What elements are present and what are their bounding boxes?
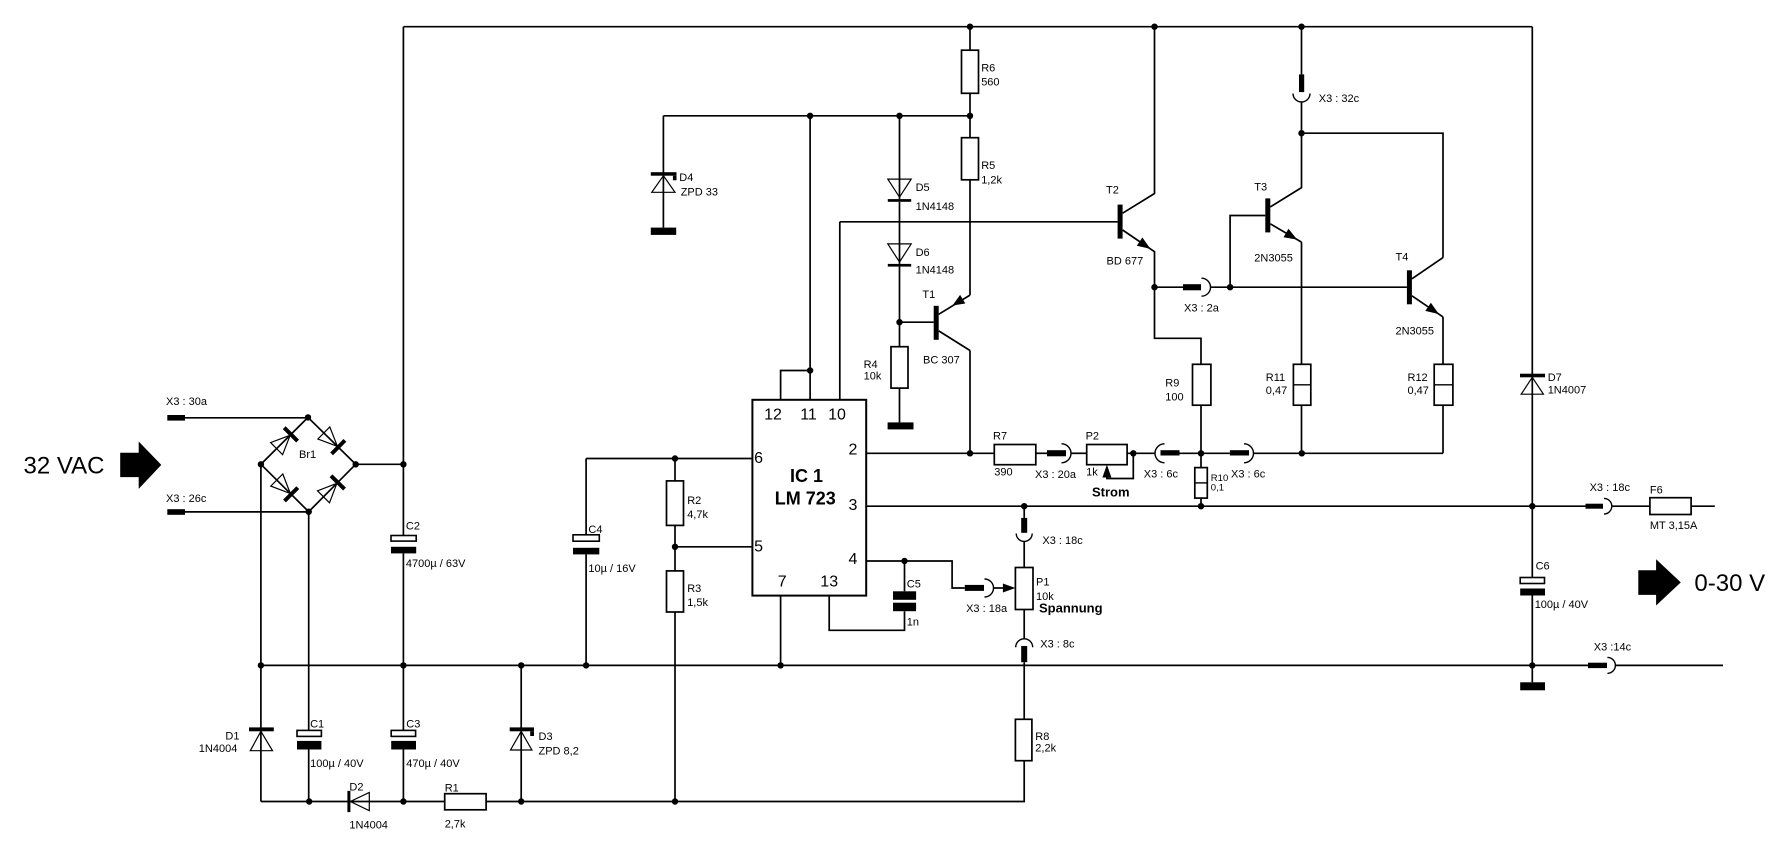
resistor R3: [674, 547, 676, 571]
junction row / C1: [306, 798, 312, 804]
svg-text:T3: T3: [1254, 182, 1267, 194]
svg-text:X3 : 6c: X3 : 6c: [1231, 469, 1266, 481]
svg-text:T4: T4: [1396, 252, 1409, 264]
svg-text:10k: 10k: [864, 370, 882, 382]
resistor R5: [969, 116, 971, 138]
terminal X3:14c: [1588, 663, 1607, 668]
junction row / R3: [672, 798, 678, 804]
wire D3 to bottom row: [520, 750, 522, 802]
output arrow 0-30 V: [1638, 559, 1681, 605]
wire D1 to bottom row: [260, 751, 262, 802]
svg-text:IC 1: IC 1: [790, 466, 823, 486]
svg-text:R8: R8: [1035, 731, 1049, 743]
resistor R8: [1015, 719, 1032, 760]
junction pin3 rail / R10: [1198, 503, 1204, 509]
zener diode D4: [662, 116, 664, 193]
svg-text:R12: R12: [1408, 372, 1428, 384]
svg-text:5: 5: [754, 539, 763, 556]
wire IC pin 13 to C5: [829, 596, 904, 631]
junction pin4 / C5: [901, 558, 907, 564]
junction top rail / T2 collector: [1151, 24, 1157, 30]
wire T3/T4 collector link: [1302, 133, 1444, 257]
potentiometer P2 (Strom): [1086, 431, 1134, 500]
svg-text:1N4148: 1N4148: [916, 201, 955, 213]
diode D1: [249, 727, 274, 731]
junction bus / D1: [258, 662, 264, 668]
svg-text:D5: D5: [916, 182, 930, 194]
terminal X3:20a: [1047, 450, 1066, 456]
wire bridge + output to riser: [356, 463, 404, 465]
ground (under R4): [888, 422, 914, 429]
capacitor C3: [391, 730, 415, 736]
junction bus / D3: [518, 662, 524, 668]
svg-text:X3 : 30a: X3 : 30a: [166, 396, 208, 408]
svg-text:4: 4: [849, 551, 858, 568]
wire C3 to bottom row: [402, 750, 404, 802]
resistor R2: [674, 459, 676, 481]
wire IC pin 6 rail: [586, 458, 752, 460]
potentiometer P1 (Spannung): [1003, 542, 1103, 616]
svg-text:32 VAC: 32 VAC: [24, 453, 105, 480]
wire C2 to 0V bus: [402, 553, 404, 665]
resistor R9: [1193, 364, 1211, 405]
svg-text:3: 3: [849, 497, 858, 514]
svg-text:X3 : 8c: X3 : 8c: [1040, 639, 1075, 651]
svg-text:0-30 V: 0-30 V: [1694, 570, 1765, 597]
diode D7: [1531, 27, 1533, 395]
transistor T4 (2N3055): [1396, 252, 1444, 338]
junction row / C3: [400, 798, 406, 804]
svg-text:10µ / 16V: 10µ / 16V: [588, 563, 636, 575]
svg-text:1N4007: 1N4007: [1548, 385, 1587, 397]
svg-text:MT 3,15A: MT 3,15A: [1650, 520, 1698, 532]
junction pin2 / T1 collector: [967, 450, 973, 456]
resistor R10: [1200, 453, 1202, 467]
wire IC pin 11 riser: [809, 116, 811, 400]
wire rail to D5: [899, 116, 901, 199]
svg-text:C4: C4: [588, 524, 602, 536]
wire R7 to X3:20a: [1036, 452, 1047, 454]
wire R3 to bottom row: [674, 612, 676, 802]
input arrow 32 VAC: [120, 442, 161, 489]
diode D6: [888, 244, 911, 262]
wire IC pin 7 to 0V bus: [780, 596, 782, 666]
wire 0V bus: [261, 664, 1588, 666]
wire IC pin 12 to pin 11 net: [781, 371, 811, 400]
node bridge + / C2 riser: [400, 461, 406, 467]
svg-text:ZPD 33: ZPD 33: [681, 187, 718, 199]
svg-text:T2: T2: [1106, 185, 1119, 197]
junction top rail / X3:32c: [1298, 24, 1304, 30]
svg-text:X3 : 18c: X3 : 18c: [1590, 482, 1631, 494]
wire R5 to T1 emitter: [969, 180, 971, 295]
terminal X3:18a (wiper feed): [866, 561, 965, 588]
svg-text:P1: P1: [1036, 577, 1049, 589]
wire D4/R5 rail (pin 11 net): [663, 115, 970, 117]
junction row / D3: [518, 798, 524, 804]
svg-text:R1: R1: [445, 783, 459, 795]
wire IC pin 2 rail: [866, 452, 994, 454]
svg-text:100µ / 40V: 100µ / 40V: [310, 758, 364, 770]
wire IC pin 3 rail (output sense): [866, 505, 1585, 507]
svg-text:D3: D3: [539, 731, 553, 743]
svg-text:11: 11: [800, 407, 817, 424]
svg-text:ZPD 8,2: ZPD 8,2: [539, 746, 579, 758]
svg-text:R9: R9: [1165, 378, 1179, 390]
wire C1 to bottom row: [308, 750, 310, 802]
node T3 base: [1227, 284, 1233, 290]
resistor R7: [994, 445, 1036, 465]
wire bus to C3: [402, 665, 404, 730]
svg-text:1N4004: 1N4004: [199, 743, 238, 755]
wire X3:6c to R9/R10 junction: [1180, 452, 1230, 454]
wire T3 emitter to R11: [1301, 242, 1303, 364]
diode D2: [347, 791, 350, 812]
wire C4 to 0V bus: [585, 554, 587, 665]
svg-text:2,2k: 2,2k: [1035, 743, 1056, 755]
svg-text:D7: D7: [1548, 372, 1562, 384]
junction P2 wiper: [1130, 450, 1136, 456]
svg-text:BC 307: BC 307: [923, 355, 960, 367]
svg-text:LM 723: LM 723: [775, 488, 836, 508]
junction pin3 / D7 C6: [1529, 503, 1535, 509]
svg-text:0,47: 0,47: [1408, 385, 1429, 397]
svg-text:1n: 1n: [907, 617, 919, 629]
wire bridge - drop to D1: [260, 464, 262, 750]
svg-text:C2: C2: [406, 520, 420, 532]
wire X3:26c to bridge bottom: [185, 511, 309, 513]
svg-text:12: 12: [764, 407, 782, 424]
transistor T2 (BD 677): [1106, 27, 1155, 288]
svg-text:1,5k: 1,5k: [687, 597, 708, 609]
terminal X3:30a: [167, 415, 185, 421]
ground (output): [1531, 665, 1533, 682]
terminal X3:18c (output): [1586, 504, 1604, 509]
svg-text:2,7k: 2,7k: [445, 819, 466, 831]
junction rail / R6 R5: [967, 113, 973, 119]
resistor R12: [1434, 364, 1453, 405]
svg-text:R6: R6: [981, 63, 995, 75]
node T2 emitter: [1151, 284, 1157, 290]
svg-text:Br1: Br1: [299, 449, 316, 461]
junction pin5 / R2 / R3: [672, 544, 678, 550]
svg-text:D2: D2: [349, 781, 363, 793]
node T3 collector / X3:32c: [1298, 130, 1304, 136]
wire IC pin 5 rail: [675, 546, 752, 548]
transistor T1 (BC 307): [900, 289, 971, 367]
terminal X3:26c: [167, 509, 185, 515]
wire C6 to 0V bus: [1531, 596, 1533, 666]
svg-text:2: 2: [849, 442, 858, 459]
svg-text:1N4148: 1N4148: [916, 265, 955, 277]
svg-text:R3: R3: [687, 583, 701, 595]
capacitor C6: [1520, 578, 1544, 584]
svg-text:Strom: Strom: [1092, 485, 1130, 500]
wire +V riser (top-left vertical): [402, 27, 404, 536]
wire X3:6c to R11/R12 bottoms: [1254, 452, 1444, 454]
wire bridge AC drop to C1: [308, 512, 310, 731]
svg-text:R7: R7: [993, 431, 1007, 443]
ground (under D4): [651, 228, 676, 235]
wire T2 base rail (pin 10 net): [840, 221, 1118, 223]
capacitor C1: [297, 730, 321, 736]
svg-text:100µ / 40V: 100µ / 40V: [1535, 599, 1589, 611]
svg-text:R2: R2: [687, 495, 701, 507]
svg-text:C6: C6: [1536, 560, 1550, 572]
bridge rectifier Br1: [258, 414, 359, 515]
wire bus to D3: [520, 665, 522, 750]
wire T3 base riser: [1230, 216, 1265, 288]
terminal X3:6c (left): [1155, 444, 1165, 463]
svg-text:X3 : 6c: X3 : 6c: [1144, 469, 1179, 481]
svg-text:10: 10: [828, 407, 846, 424]
terminal X3:18c (to P1): [1023, 506, 1025, 518]
wire IC pin 10 riser: [839, 222, 841, 400]
svg-text:4,7k: 4,7k: [687, 509, 708, 521]
wire base rail to T4: [1230, 286, 1407, 288]
svg-text:D1: D1: [225, 731, 239, 743]
junction bus / C2: [400, 662, 406, 668]
svg-text:X3 :14c: X3 :14c: [1594, 642, 1632, 654]
wire P2 to node: [1127, 452, 1155, 454]
wire top +V rail: [403, 26, 1532, 28]
svg-text:X3 : 26c: X3 : 26c: [166, 493, 207, 505]
resistor R11: [1293, 364, 1310, 405]
junction bus / IC pin 7: [777, 662, 783, 668]
wire D5 to D6: [899, 202, 901, 264]
svg-text:X3 : 20a: X3 : 20a: [1035, 469, 1077, 481]
capacitor C4: [585, 459, 587, 535]
svg-text:X3 : 18a: X3 : 18a: [966, 603, 1008, 615]
svg-text:7: 7: [778, 574, 787, 591]
svg-text:1k: 1k: [1086, 466, 1098, 478]
junction pin11 / pin12: [807, 367, 813, 373]
op-amp regulator U1 (IC 1 LM 723): [752, 400, 866, 596]
svg-text:0,47: 0,47: [1266, 385, 1287, 397]
svg-text:R11: R11: [1266, 372, 1285, 384]
junction rail / pin11: [807, 113, 813, 119]
terminal X3:32c: [1301, 27, 1303, 75]
junction pin2 rail / R9 R10: [1198, 450, 1204, 456]
svg-text:0,1: 0,1: [1211, 483, 1224, 494]
svg-text:X3 : 32c: X3 : 32c: [1319, 93, 1360, 105]
svg-text:4700µ / 63V: 4700µ / 63V: [406, 558, 466, 570]
fuse F6: [1650, 498, 1691, 515]
svg-text:X3 : 2a: X3 : 2a: [1184, 303, 1220, 315]
junction top rail / R6: [967, 24, 973, 30]
junction bus / C4: [583, 662, 589, 668]
junction pin3 / X3:18c: [1021, 503, 1027, 509]
svg-text:560: 560: [981, 77, 999, 89]
svg-text:F6: F6: [1650, 485, 1663, 497]
svg-text:T1: T1: [922, 289, 935, 301]
wire X3:30a to bridge top: [185, 417, 308, 419]
svg-text:P2: P2: [1086, 431, 1099, 443]
svg-text:R5: R5: [981, 160, 995, 172]
terminal X3:8c: [1023, 610, 1025, 639]
junction bus / C6 ground: [1529, 662, 1535, 668]
svg-text:Spannung: Spannung: [1039, 601, 1103, 616]
zener diode D3: [510, 727, 534, 731]
svg-text:R4: R4: [864, 359, 878, 371]
wire 0V bus right of X3:14c: [1615, 664, 1723, 666]
svg-text:390: 390: [994, 466, 1012, 478]
svg-text:1,2k: 1,2k: [981, 174, 1002, 186]
terminal X3:2a: [1155, 286, 1184, 288]
svg-text:X3 : 18c: X3 : 18c: [1042, 535, 1083, 547]
resistor R4: [891, 347, 908, 388]
diode D5: [888, 179, 911, 197]
svg-text:BD 677: BD 677: [1107, 256, 1144, 268]
capacitor C5: [904, 561, 906, 591]
svg-text:D4: D4: [679, 172, 693, 184]
svg-text:2N3055: 2N3055: [1396, 326, 1435, 338]
svg-text:C5: C5: [907, 578, 921, 590]
wire T1 collector to pin2 rail: [969, 351, 971, 454]
wire X3:20a to P2: [1071, 452, 1087, 454]
wire D6 to T1 base node: [899, 267, 901, 347]
svg-text:6: 6: [754, 450, 763, 467]
wire T4 emitter to R12: [1442, 317, 1444, 364]
junction pin6 / R2: [672, 455, 678, 461]
resistor R1: [445, 794, 486, 810]
wire T2 emitter to R9: [1155, 287, 1202, 364]
capacitor C2: [391, 536, 416, 542]
node T1 base / R4: [896, 319, 902, 325]
svg-text:100: 100: [1165, 392, 1183, 404]
svg-text:D6: D6: [916, 247, 930, 259]
junction pin2 rail / R11: [1299, 450, 1305, 456]
wire bottom row (reference rail): [261, 801, 445, 803]
terminal X3:6c (right): [1230, 450, 1249, 455]
junction rail / D5: [896, 113, 902, 119]
svg-text:C1: C1: [310, 719, 324, 731]
svg-text:1N4004: 1N4004: [349, 819, 388, 831]
svg-text:C3: C3: [406, 719, 420, 731]
transistor T3 (2N3055): [1254, 133, 1301, 265]
svg-text:13: 13: [820, 574, 838, 591]
resistor R6: [969, 27, 971, 51]
svg-text:2N3055: 2N3055: [1254, 253, 1293, 265]
svg-text:470µ / 40V: 470µ / 40V: [406, 758, 460, 770]
